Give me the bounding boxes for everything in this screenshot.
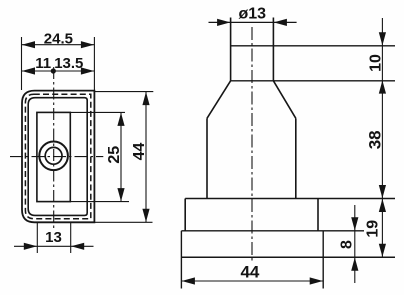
step right side + 44 extension below bbox=[322, 231, 324, 289]
dim 24.5 : right arrow bbox=[81, 41, 94, 48]
dim 24.5 : left arrow bbox=[22, 41, 35, 48]
dim 13 : left arrow (outside) bbox=[24, 243, 37, 250]
dim 10 : top arrow (outside above) bbox=[379, 32, 386, 45]
dim 11/13.5 : left arrow bbox=[22, 67, 35, 74]
svg-text:11: 11 bbox=[35, 55, 51, 72]
step line + extension to 8-dim bbox=[181, 230, 364, 232]
svg-text:24.5: 24.5 bbox=[44, 31, 73, 48]
svg-text:10: 10 bbox=[368, 54, 385, 72]
dim 19 : top arrow (below flange line) bbox=[379, 199, 386, 212]
inner window rectangle bbox=[37, 112, 70, 201]
inner wall outline bbox=[28, 98, 87, 216]
dim 25 : bottom extension line bbox=[70, 201, 129, 203]
dim 44 (left view) : top extension line bbox=[94, 91, 153, 93]
body left side bbox=[206, 118, 208, 198]
outer body outline (rounded left corners) bbox=[22, 91, 94, 223]
dim 25 : top extension line bbox=[70, 111, 125, 113]
dim 44 (bottom) : left arrow bbox=[182, 277, 195, 284]
bottom line + extension to 19-dim bbox=[181, 256, 395, 258]
dim 38 : bottom arrow bbox=[379, 185, 386, 198]
dim 44 (left view) : top arrow bbox=[142, 92, 149, 105]
svg-text:19: 19 bbox=[364, 220, 381, 238]
dim 11/13.5 : dimension line bbox=[22, 70, 95, 72]
taper left diagonal bbox=[207, 81, 231, 119]
svg-text:13: 13 bbox=[45, 229, 62, 246]
taper right diagonal bbox=[273, 81, 295, 119]
svg-text:38: 38 bbox=[366, 130, 385, 149]
dim 11/13.5 : centre dot bbox=[51, 68, 56, 73]
dim 8 : lower arrow (below bottom line) bbox=[351, 258, 358, 271]
dim 25 : top arrow bbox=[117, 113, 124, 126]
neck feature line + extension to 10-dim bbox=[231, 45, 395, 47]
neck top edge / dia13 dimension line bbox=[209, 21, 297, 23]
hidden (dashed) mid-wall outline bbox=[25, 94, 90, 218]
step left side + 44 extension below bbox=[180, 231, 182, 289]
dim 44 (bottom) : dimension line bbox=[181, 280, 323, 282]
svg-text:25: 25 bbox=[106, 146, 123, 164]
body right side bbox=[295, 118, 297, 198]
dim 44 (left view) : bottom extension line bbox=[94, 221, 152, 223]
dim 11/13.5 : right arrow bbox=[81, 67, 94, 74]
svg-text:8: 8 bbox=[338, 240, 355, 249]
svg-text:44: 44 bbox=[240, 263, 259, 282]
svg-text:ø13: ø13 bbox=[239, 6, 267, 23]
dim 13 : right arrow (outside) bbox=[71, 243, 84, 250]
neck right side bbox=[272, 18, 274, 81]
dim 10 bottom / 38 top arrow (below shoulder line) bbox=[379, 80, 386, 93]
vertical centerline bbox=[53, 67, 55, 231]
dia13 right arrow (outside) bbox=[274, 19, 287, 26]
neck left side bbox=[230, 18, 232, 81]
hole outer circle bbox=[39, 142, 68, 171]
shoulder line + extension to 38-dim bbox=[231, 80, 395, 82]
hole inner circle bbox=[45, 147, 62, 164]
horizontal centerline bbox=[10, 156, 103, 158]
svg-text:44: 44 bbox=[131, 143, 148, 161]
dim 44 (bottom) : right arrow bbox=[310, 277, 323, 284]
dim 8 : upper arrow (above step line) bbox=[351, 217, 358, 230]
dim 24.5 : dimension line bbox=[22, 44, 95, 46]
dim 13 : right extension line bbox=[70, 223, 72, 253]
dim 19 : bottom arrow bbox=[379, 244, 386, 257]
flange left side bbox=[184, 199, 186, 231]
flange right side bbox=[317, 199, 319, 231]
dim 25 : bottom arrow bbox=[117, 188, 124, 201]
dim 24.5 : extension lines bbox=[21, 37, 23, 90]
dim 8 : dimension line bbox=[354, 205, 356, 283]
right view vertical centerline bbox=[251, 27, 253, 262]
dim 25 : dimension line bbox=[120, 112, 122, 201]
dim 44 (left view) : bottom arrow bbox=[142, 209, 149, 222]
dim 13 : left extension line bbox=[36, 223, 38, 253]
svg-text:13.5: 13.5 bbox=[54, 55, 83, 72]
dim 44 (left view) : dimension line bbox=[145, 92, 147, 223]
dim 13 : dimension line bbox=[14, 245, 94, 247]
right dimension column line (10/38/19) bbox=[381, 18, 383, 257]
flange top line + extension to 19-dim bbox=[185, 198, 395, 200]
dia13 left arrow (outside) bbox=[217, 19, 230, 26]
